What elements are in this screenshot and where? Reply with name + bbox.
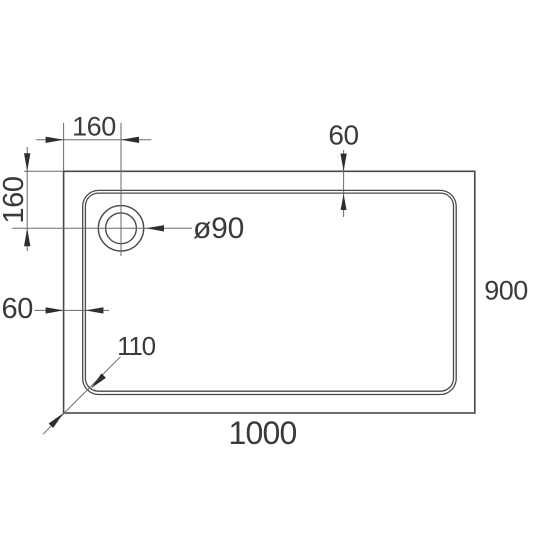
svg-text:160: 160: [72, 112, 116, 142]
corner radius leader line (45 degrees): [43, 357, 121, 435]
corner radius arrowhead at floor corner (points down-left): [91, 373, 106, 388]
dim 60 left: left arrowhead (points right, tip at outer left edge): [46, 307, 64, 313]
drain horizontal centerline / dim-160-left bottom extension: [12, 227, 192, 229]
dim 60 top: lower arrowhead (points up, tip at floor line): [341, 194, 347, 210]
svg-text:900: 900: [484, 276, 528, 306]
dim 60 left: right arrowhead (points left, tip at floor line): [85, 307, 103, 313]
svg-text:110: 110: [117, 331, 156, 361]
drain vertical centerline / dim-160 right extension: [120, 123, 122, 256]
dim 160 left: top extension line (rect top edge extended): [24, 170, 64, 172]
outer tray rectangle: [64, 171, 475, 413]
drain outer circle: [98, 206, 143, 251]
drain inner circle: [106, 213, 137, 244]
dim 160 left: dimension line: [26, 147, 28, 251]
dim 160 top: left extension line: [63, 123, 65, 172]
svg-text:1000: 1000: [229, 415, 297, 451]
dim 160 top: dimension line: [36, 139, 152, 141]
dim 160 left: lower arrowhead (points up, tip at drain centerline): [24, 228, 30, 246]
svg-text:160: 160: [0, 176, 30, 223]
dim 60 left: dimension line: [35, 309, 110, 311]
floor inner rounded rectangle: [85, 193, 453, 391]
dim 160 top: right arrowhead (points left, tip at drain centerline): [121, 137, 139, 143]
drain diameter leader arrowhead (points left, tip at drain circle): [146, 225, 164, 231]
svg-text:ø90: ø90: [193, 212, 244, 245]
rim outer rounded rectangle: [83, 190, 457, 394]
corner radius arrowhead at outer corner (points up-right): [49, 413, 64, 428]
dim 160 left: upper arrowhead (points down, tip at rect top): [24, 153, 30, 171]
dim 160 top: left arrowhead (points right, tip at outer-left extension): [46, 137, 64, 143]
svg-text:60: 60: [2, 293, 33, 325]
dim 60 top: upper arrowhead (points down, tip at rect top edge): [340, 154, 346, 172]
svg-text:60: 60: [328, 119, 358, 150]
dim 60 top: dimension line: [343, 150, 345, 217]
